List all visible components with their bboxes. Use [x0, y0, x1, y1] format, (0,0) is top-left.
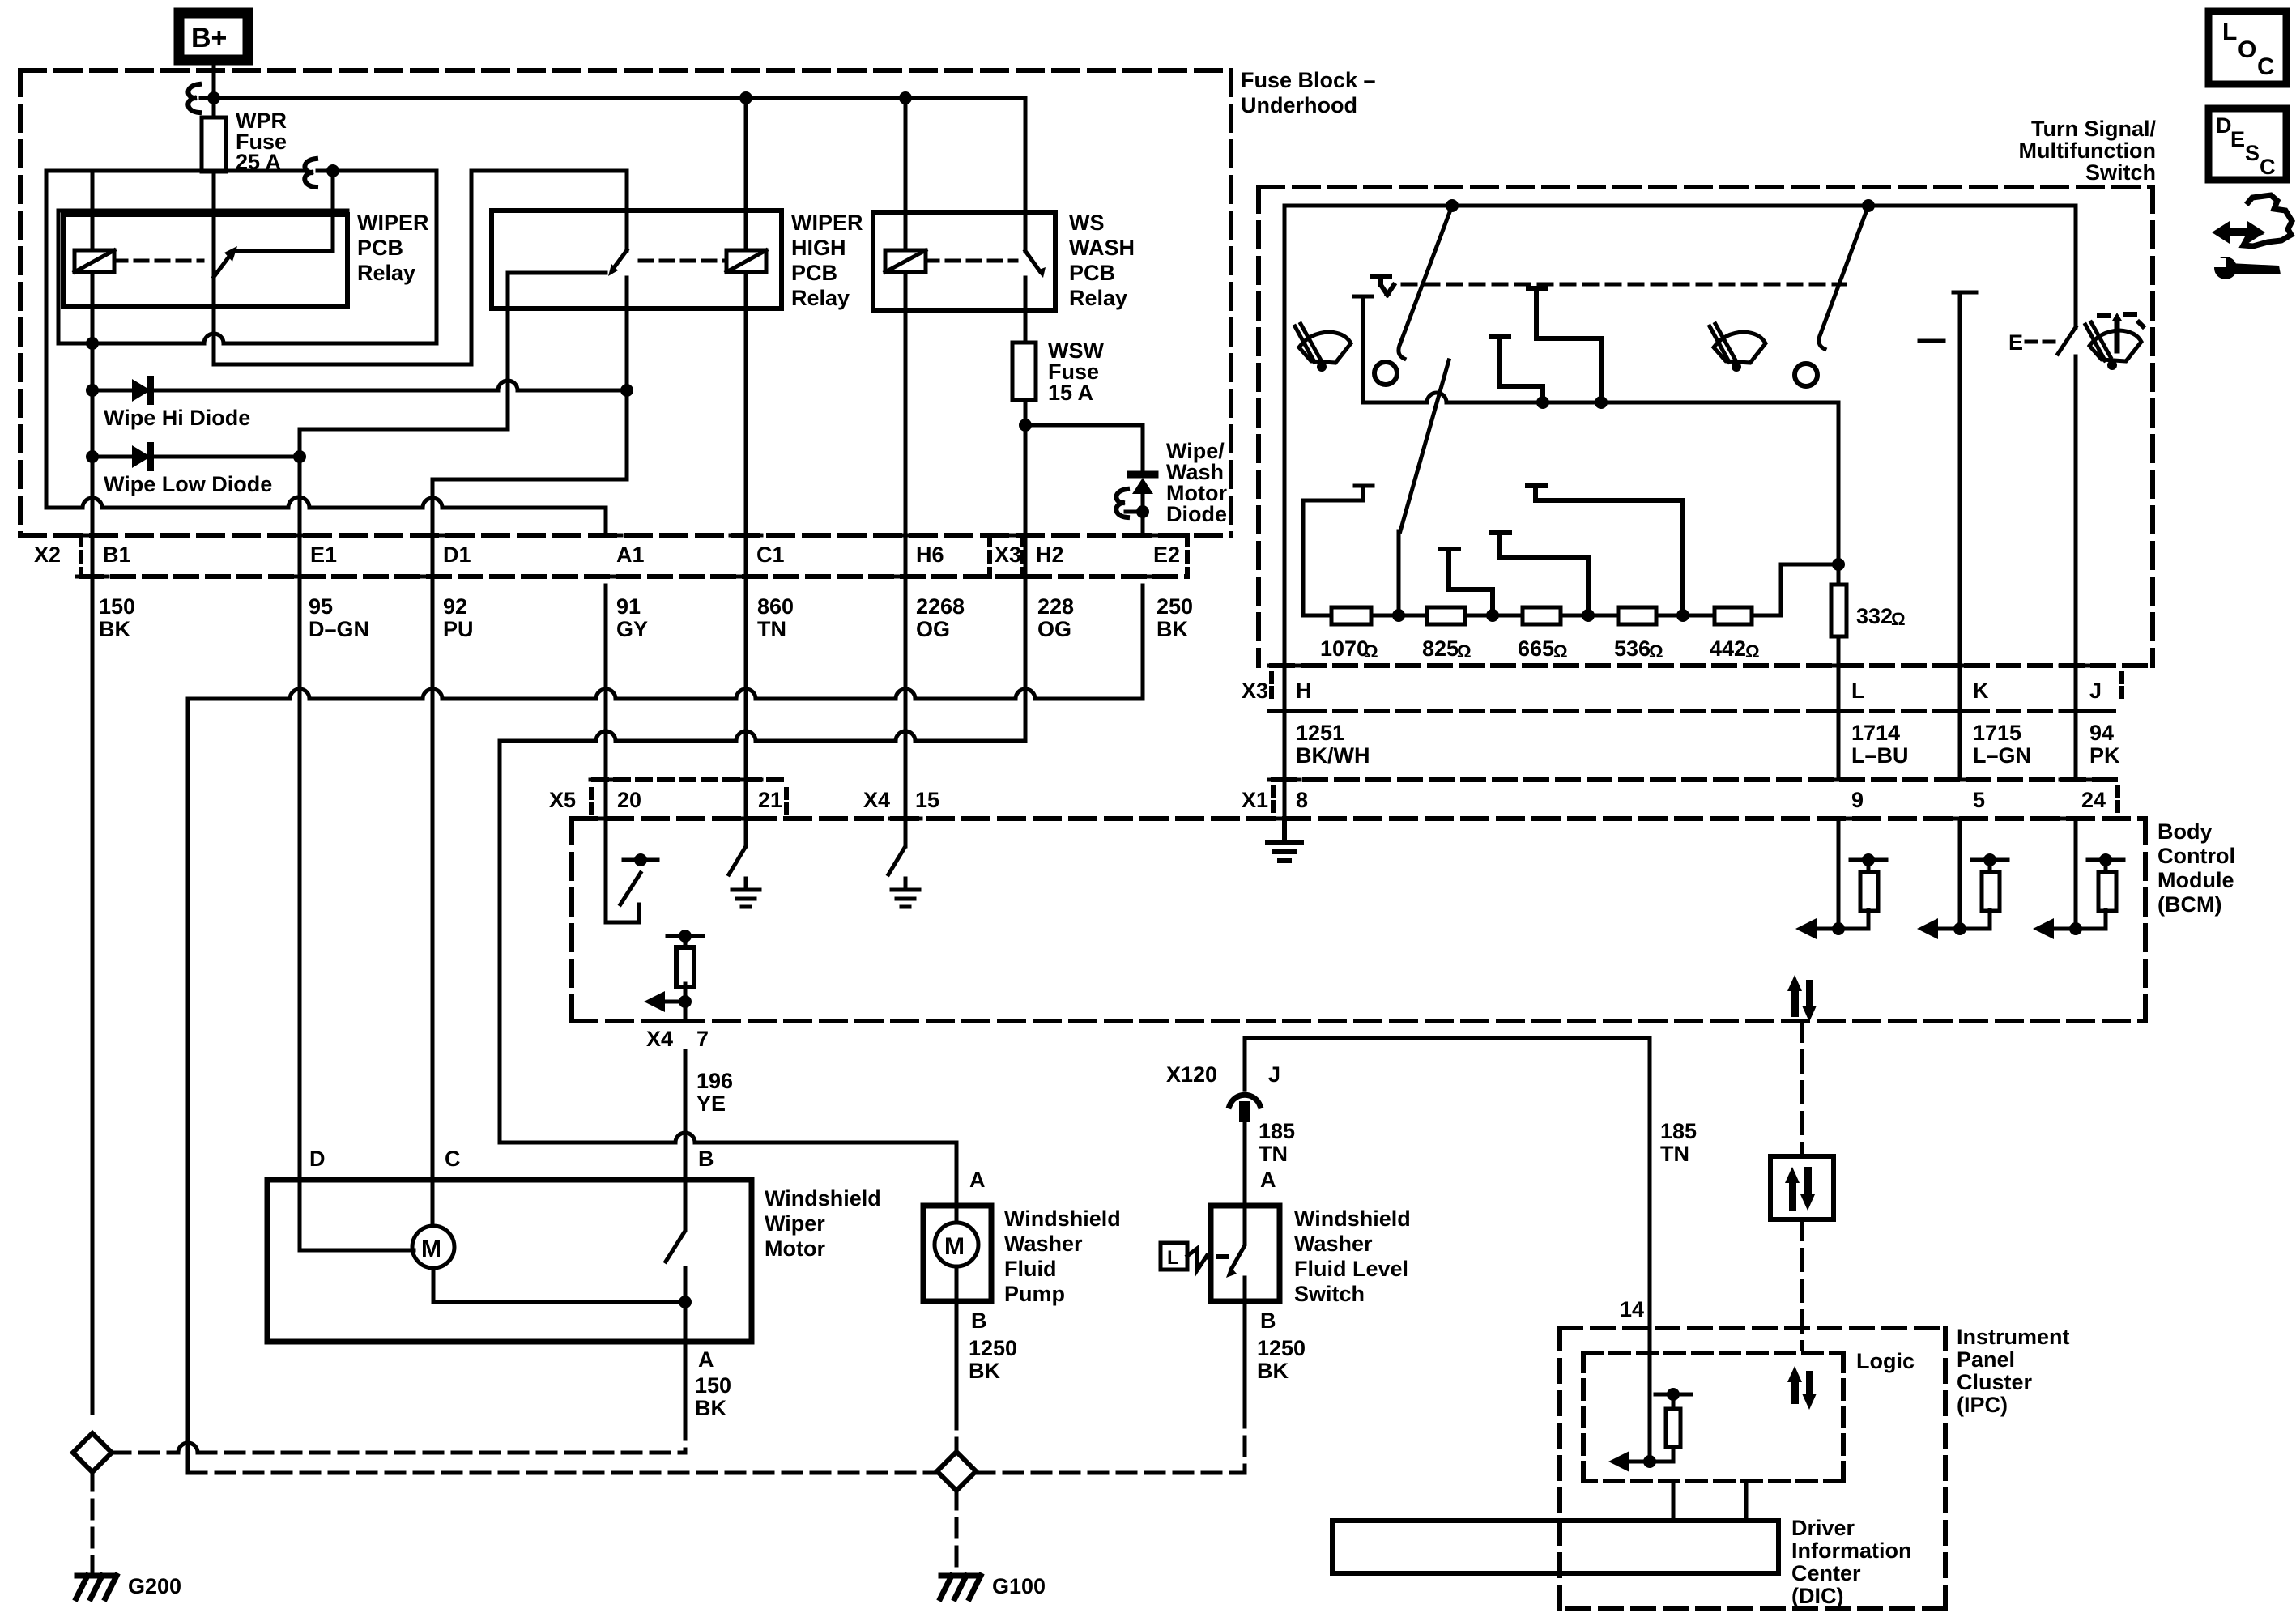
- logic label: [1856, 1349, 1915, 1373]
- BCM X4-7 pullup bar: [667, 934, 703, 938]
- node dot relay1 NO contact: [326, 164, 339, 177]
- B+ battery feed box: [179, 13, 248, 60]
- wire label 185 TN left: [1259, 1119, 1295, 1166]
- wire L down to connector: [1837, 636, 1841, 780]
- svg-text:D: D: [2216, 113, 2232, 138]
- resistor 536: [1618, 607, 1656, 624]
- svg-text:1715: 1715: [1973, 721, 2021, 745]
- connector pin labels X2 row: [34, 543, 1180, 567]
- svg-text:91: 91: [616, 594, 641, 619]
- svg-text:Fuse Block –: Fuse Block –: [1241, 68, 1376, 92]
- IPC logic dashed box: [1583, 1353, 1843, 1481]
- connector X2 X3 row bottom dashed: [81, 574, 1187, 579]
- svg-text:L: L: [1167, 1247, 1179, 1269]
- svg-text:Logic: Logic: [1856, 1349, 1915, 1373]
- svg-text:Windshield: Windshield: [765, 1186, 881, 1211]
- connector X5 separator right: [784, 789, 789, 812]
- svg-text:1250: 1250: [1257, 1336, 1306, 1360]
- svg-text:L–BU: L–BU: [1851, 743, 1909, 768]
- svg-text:L–GN: L–GN: [1973, 743, 2031, 768]
- wire K 1715 into BCM: [1958, 819, 1962, 929]
- IPC pin14 wire inside: [1648, 1328, 1652, 1462]
- svg-text:Control: Control: [2158, 844, 2235, 868]
- wire label 2268 OG: [916, 594, 965, 641]
- svg-text:OG: OG: [1037, 617, 1071, 641]
- svg-text:O: O: [2238, 36, 2256, 63]
- node dot rail 1977: [1595, 396, 1608, 409]
- wire washer feed down and east to pump: [500, 741, 956, 1206]
- svg-text:C: C: [445, 1147, 461, 1171]
- node dot at 1118,121: [899, 91, 912, 104]
- svg-text:L: L: [2222, 19, 2237, 45]
- svg-text:B: B: [698, 1147, 714, 1171]
- BCM pin5 resistor: [1988, 860, 1992, 872]
- svg-text:X1: X1: [1242, 788, 1268, 812]
- wire A1 gather line y627: [46, 508, 606, 535]
- wire label 150 BK: [99, 594, 135, 641]
- mf contact B1 bracket: [1441, 549, 1493, 607]
- node dot blade1 top: [1446, 199, 1459, 212]
- BCM pin9 arrow west: [1814, 927, 1838, 931]
- svg-text:E2: E2: [1153, 543, 1180, 567]
- wire dashed diamond to G100 ground: [955, 1491, 959, 1571]
- wire label 91 GY: [616, 594, 648, 641]
- wire label 1251 BK/WH: [1296, 721, 1370, 768]
- svg-text:(DIC): (DIC): [1791, 1584, 1843, 1608]
- connector X5 separator left: [589, 789, 594, 812]
- svg-text:24: 24: [2081, 788, 2106, 812]
- wire label 860 TN: [757, 594, 794, 641]
- hop over E1: [288, 497, 309, 508]
- wire fluid switch B dashed down: [1243, 1409, 1247, 1473]
- svg-text:8: 8: [1296, 788, 1308, 812]
- BCM ground pin8: [1267, 819, 1301, 861]
- wire fuse to relay1 common: [212, 172, 216, 277]
- connector X3 right separator: [2119, 674, 2124, 703]
- wire WSW fuse to H2: [1024, 400, 1028, 585]
- windshield washer fluid pump box: [923, 1206, 991, 1301]
- relay U2 coil dashed actuator: [640, 259, 726, 263]
- svg-text:B: B: [971, 1308, 987, 1333]
- mf blade right: [1821, 206, 1868, 334]
- svg-text:150: 150: [695, 1373, 731, 1398]
- hop rail over blade2: [1427, 393, 1446, 402]
- wire fuse output line y211: [46, 169, 305, 173]
- svg-text:Cluster: Cluster: [1957, 1370, 2033, 1394]
- svg-text:665: 665: [1518, 636, 1554, 661]
- mf dashed actuator line: [1403, 283, 1845, 287]
- node dot loop B1 junction: [86, 337, 99, 350]
- svg-text:1250: 1250: [969, 1336, 1017, 1360]
- IPC pin14 resistor: [1672, 1394, 1676, 1409]
- svg-text:Ω: Ω: [1457, 641, 1472, 662]
- connector X3 separator: [1269, 674, 1274, 703]
- wire motor A down: [684, 1342, 688, 1421]
- washer icon: [2085, 313, 2143, 370]
- mf contact B2 bracket: [1492, 533, 1588, 607]
- BCM pin24 resistor: [2104, 860, 2108, 872]
- svg-text:WS: WS: [1069, 211, 1105, 235]
- svg-text:Underhood: Underhood: [1241, 93, 1357, 117]
- wire 150 BK B1 down: [91, 585, 95, 1413]
- connector pin crossing ticks: [77, 535, 2091, 819]
- motor pin A: [698, 1347, 714, 1372]
- mf park contact circle right: [1795, 364, 1817, 386]
- node dot wipelow junction B1: [86, 450, 99, 463]
- wire wipelow up to relay2 common: [300, 273, 508, 457]
- connector separator after X3 label: [1020, 535, 1024, 577]
- node dot at 264,121: [207, 91, 220, 104]
- connector separator after E2: [1185, 535, 1190, 577]
- resistor 825: [1427, 607, 1465, 624]
- svg-text:L: L: [1851, 679, 1865, 703]
- pump pin B label: [971, 1308, 987, 1333]
- node dot motor common: [679, 1296, 692, 1308]
- instrument panel cluster dashed box: [1560, 1328, 1945, 1608]
- svg-text:BK: BK: [99, 617, 130, 641]
- svg-text:1714: 1714: [1851, 721, 1900, 745]
- svg-text:S: S: [2245, 141, 2260, 165]
- svg-text:B: B: [1260, 1308, 1276, 1333]
- svg-text:H2: H2: [1036, 543, 1064, 567]
- svg-text:860: 860: [757, 594, 794, 619]
- BCM X4-7 node dot: [679, 995, 692, 1008]
- svg-text:BK/WH: BK/WH: [1296, 743, 1370, 768]
- svg-text:WIPER: WIPER: [357, 211, 429, 235]
- BCM X4-7 arrow west: [661, 1000, 685, 1004]
- wire 196 YE down to motor B: [684, 1051, 688, 1180]
- wire label 228 OG: [1037, 594, 1074, 641]
- svg-text:Body: Body: [2158, 819, 2213, 844]
- mf park contact circle left: [1374, 362, 1397, 385]
- BCM serial data arrows: [1787, 975, 1817, 1022]
- svg-text:Fluid Level: Fluid Level: [1294, 1257, 1408, 1281]
- hop y863 over E1: [290, 689, 309, 699]
- wire bus2 down to relay2 blade: [625, 171, 629, 250]
- svg-text:X3: X3: [995, 543, 1021, 567]
- svg-text:A: A: [969, 1168, 986, 1192]
- fuse WPR 25A: [202, 117, 226, 172]
- BCM pin5 node dot: [1953, 922, 1966, 935]
- mf L wire rail corner down: [1837, 402, 1841, 585]
- wire label 94 PK: [2089, 721, 2120, 768]
- svg-text:Windshield: Windshield: [1294, 1206, 1411, 1231]
- wire relay2 NO down through box: [432, 278, 627, 479]
- hop dashed over 250BK riser: [178, 1443, 198, 1453]
- BCM switch pin20 blade: [620, 873, 641, 904]
- wire bus corner down to relay3: [1024, 98, 1028, 251]
- connector separator X3 left: [987, 535, 992, 577]
- BCM switch pin20 return hook: [606, 819, 639, 922]
- svg-text:WASH: WASH: [1069, 236, 1135, 260]
- svg-text:196: 196: [696, 1069, 733, 1093]
- diode Wipe Low: [92, 455, 300, 459]
- wire 95 D-GN E1 down to motor D: [298, 457, 302, 1180]
- ground G200: [76, 1576, 117, 1598]
- wire 250 BK E2 down and west ground line: [188, 585, 1143, 1473]
- BCM pin24 arrow west: [2051, 927, 2076, 931]
- svg-text:Ω: Ω: [1649, 641, 1663, 662]
- fluid switch zigzag link: [1187, 1249, 1211, 1270]
- node dot diode bottom: [1136, 505, 1149, 518]
- resistor 1070: [1331, 607, 1371, 624]
- fluid switch pin A label: [1260, 1168, 1276, 1192]
- IPC label: [1957, 1325, 2070, 1417]
- wire relay3 output to WSW fuse: [1024, 278, 1028, 343]
- svg-text:H6: H6: [916, 543, 944, 567]
- svg-text:BK: BK: [695, 1396, 726, 1420]
- svg-text:TN: TN: [757, 617, 786, 641]
- resistor 332: [1831, 585, 1847, 636]
- wire label 1250 BK fluid switch: [1257, 1336, 1306, 1383]
- svg-text:Turn Signal/: Turn Signal/: [2031, 117, 2156, 141]
- mf rail left riser: [1303, 486, 1373, 615]
- hop y863 over D1: [423, 689, 442, 699]
- relay U1 coil: [75, 250, 114, 272]
- svg-text:C: C: [2260, 155, 2276, 179]
- svg-text:X5: X5: [549, 788, 576, 812]
- legend wrench icon: [2213, 257, 2281, 279]
- wire motor A dashed to splice: [684, 1421, 688, 1453]
- svg-text:M: M: [944, 1233, 965, 1260]
- relay U1 switch blade: [214, 254, 231, 277]
- IPC pin 14 label: [1620, 1297, 1644, 1321]
- relay U1 WIPER PCB Relay box: [63, 215, 347, 306]
- hop y1411 over 196YE: [675, 1133, 695, 1143]
- wire pump A into M: [955, 1206, 959, 1223]
- wire dashed diamond to G200 ground: [91, 1472, 95, 1571]
- diode wipe wash motor: [1131, 471, 1155, 479]
- mf contact A2 bracket: [1491, 337, 1543, 402]
- svg-text:Washer: Washer: [1294, 1232, 1373, 1256]
- hop y915 over C1: [736, 731, 756, 741]
- mf K wire with contact ticks: [1919, 292, 1976, 780]
- svg-text:Relay: Relay: [357, 261, 415, 285]
- wire fluid switch B down: [1243, 1301, 1247, 1409]
- svg-text:M: M: [421, 1236, 441, 1262]
- hop over B1: [83, 498, 102, 508]
- node dot wipelow E1 junction: [293, 450, 306, 463]
- driver information center box: [1332, 1521, 1778, 1573]
- svg-text:B+: B+: [191, 23, 227, 53]
- pump pin A label: [969, 1168, 986, 1192]
- svg-text:C1: C1: [756, 543, 785, 567]
- fuse WSW 15A: [1012, 343, 1036, 400]
- svg-text:Center: Center: [1791, 1561, 1861, 1585]
- wire relay1 common down to riser: [214, 171, 627, 364]
- fluid switch pin B label: [1260, 1308, 1276, 1333]
- wire net bus2 crimp to corner: [317, 169, 437, 173]
- hop y915 over A1: [596, 731, 616, 741]
- hop y915 over H6: [896, 731, 915, 741]
- mf contact A1 bracket: [1528, 288, 1601, 402]
- connector X3 switch row dashed bottom: [1272, 709, 2122, 713]
- hop y863 over C1: [736, 689, 756, 699]
- BCM ground pin21: [732, 879, 760, 907]
- diode Wipe Hi: [92, 389, 624, 393]
- relay U3 WS WASH PCB Relay box: [873, 212, 1055, 310]
- svg-text:Fluid: Fluid: [1004, 1257, 1056, 1281]
- svg-text:G200: G200: [128, 1574, 181, 1598]
- legend arrow icon: [2212, 221, 2265, 244]
- svg-text:7: 7: [696, 1027, 709, 1051]
- wire pump B dashed to G100 splice: [955, 1411, 959, 1452]
- windshield washer fluid level switch box: [1211, 1206, 1280, 1301]
- mf NC contact mark left: [1372, 276, 1394, 295]
- node dot wipehi junction B1: [86, 384, 99, 397]
- mf resistor rail y760: [1303, 564, 1838, 615]
- BCM switch pin20 contact bar: [624, 858, 658, 862]
- svg-text:Motor: Motor: [765, 1236, 825, 1261]
- relay U3 switch blade: [1025, 251, 1040, 271]
- windshield wiper motor box: [267, 1180, 752, 1342]
- svg-text:Relay: Relay: [1069, 286, 1127, 310]
- motor park switch blade: [666, 1180, 685, 1262]
- node dot rail 1905: [1536, 396, 1549, 409]
- svg-text:228: 228: [1037, 594, 1074, 619]
- wire 185 TN fluid level to IPC 14: [1245, 1038, 1650, 1328]
- svg-text:YE: YE: [696, 1091, 726, 1116]
- svg-text:J: J: [1268, 1062, 1280, 1087]
- motor park switch lower stub: [684, 1268, 688, 1342]
- LOC legend box: [2209, 11, 2286, 84]
- relay U2 pivot line: [508, 271, 606, 275]
- splice crimp S2 on line 211: [305, 159, 316, 187]
- svg-text:X4: X4: [646, 1027, 673, 1051]
- mf switch inner solid box: [1284, 206, 2076, 666]
- wire pump M to B: [955, 1266, 959, 1301]
- DIC legs: [1673, 1481, 1746, 1521]
- wire label 95 D-GN: [309, 594, 369, 641]
- svg-text:D1: D1: [443, 543, 471, 567]
- svg-text:BK: BK: [1157, 617, 1188, 641]
- IPC pin14 node dot: [1643, 1455, 1656, 1468]
- svg-text:1070: 1070: [1320, 636, 1369, 661]
- BCM switch pin21 blade: [729, 819, 746, 874]
- BCM pin9 resistor: [1867, 860, 1871, 872]
- wire dashed G200 splice east to motor A: [112, 1451, 685, 1455]
- connector X1 separator: [1271, 788, 1276, 811]
- serial data dashed link down: [1800, 1021, 1804, 1156]
- connector X1 right separator: [2115, 788, 2120, 811]
- svg-text:21: 21: [758, 788, 782, 812]
- wire label 1714 L-BU: [1851, 721, 1909, 768]
- motor M armature: [412, 1226, 454, 1268]
- svg-text:Wiper: Wiper: [765, 1211, 825, 1236]
- svg-text:X4: X4: [863, 788, 890, 812]
- svg-text:Ω: Ω: [1364, 641, 1378, 662]
- svg-text:150: 150: [99, 594, 135, 619]
- wire J 94 into BCM: [2074, 819, 2078, 929]
- svg-text:E: E: [2230, 127, 2245, 151]
- svg-text:OG: OG: [916, 617, 950, 641]
- svg-text:D: D: [309, 1147, 326, 1171]
- wire 2268 OG H6 down to X4 15: [904, 585, 908, 846]
- svg-text:442: 442: [1710, 636, 1746, 661]
- hop y863 over H6: [896, 689, 915, 699]
- svg-text:Windshield: Windshield: [1004, 1206, 1121, 1231]
- svg-text:X120: X120: [1166, 1062, 1217, 1087]
- svg-text:H: H: [1296, 679, 1312, 703]
- wire loop right edge: [435, 171, 439, 343]
- svg-text:Diode: Diode: [1166, 502, 1227, 526]
- svg-text:15 A: 15 A: [1048, 381, 1093, 405]
- node dots resistor rail: [1392, 609, 1405, 622]
- svg-text:Ω: Ω: [1891, 609, 1906, 629]
- splice diamond G200 net: [73, 1433, 112, 1472]
- svg-text:185: 185: [1259, 1119, 1295, 1143]
- svg-text:(IPC): (IPC): [1957, 1393, 2008, 1417]
- svg-text:Information: Information: [1791, 1538, 1912, 1563]
- svg-text:BK: BK: [969, 1359, 1000, 1383]
- node dot wipehi at relay2 NO: [620, 384, 633, 397]
- wire loop top edge: [58, 209, 347, 213]
- svg-text:A1: A1: [616, 543, 645, 567]
- fluid switch L sensor box: [1161, 1243, 1187, 1270]
- svg-text:E: E: [2008, 330, 2023, 355]
- wire C1 from bus through coil: [744, 98, 748, 585]
- svg-text:PCB: PCB: [1069, 261, 1115, 285]
- ground G100: [940, 1576, 981, 1598]
- mf E switch blade: [2058, 327, 2076, 354]
- svg-text:20: 20: [617, 788, 641, 812]
- BCM X4-7 resistor: [684, 936, 688, 946]
- svg-text:Washer: Washer: [1004, 1232, 1083, 1256]
- turn signal multifunction switch dashed box: [1259, 187, 2153, 666]
- wire label 250 BK: [1157, 594, 1193, 641]
- BCM pin24 pullup bar: [2088, 858, 2123, 862]
- wiper icon left: [1295, 324, 1351, 372]
- wire 91 GY A1 down to X5 20: [604, 585, 608, 819]
- svg-text:250: 250: [1157, 594, 1193, 619]
- wire B1 through coil down: [91, 272, 95, 585]
- relay U1 coil dashed actuator: [114, 259, 202, 263]
- wire D1 down from 592: [431, 479, 435, 585]
- mf blade2 selector: [1399, 360, 1449, 615]
- hop y863 over A1: [596, 689, 616, 699]
- fluid switch dash mark: [1218, 1254, 1227, 1259]
- wire L 1714 into BCM: [1837, 819, 1841, 929]
- wire motor C to M top: [431, 1180, 435, 1226]
- svg-text:J: J: [2089, 679, 2102, 703]
- svg-text:A: A: [698, 1347, 714, 1372]
- wire label 196 YE: [696, 1069, 733, 1116]
- svg-text:HIGH: HIGH: [791, 236, 846, 260]
- svg-text:PK: PK: [2089, 743, 2120, 768]
- svg-text:Wipe Low Diode: Wipe Low Diode: [104, 472, 272, 496]
- svg-text:2268: 2268: [916, 594, 965, 619]
- mf contact leg left: [1354, 296, 1372, 402]
- multifunction switch label: [2019, 117, 2157, 185]
- wire H 1251 down: [1283, 666, 1287, 819]
- relay U3 coil: [885, 250, 926, 272]
- svg-text:14: 14: [1620, 1297, 1644, 1321]
- svg-text:G100: G100: [992, 1574, 1046, 1598]
- svg-text:5: 5: [1973, 788, 1985, 812]
- svg-text:Ω: Ω: [1745, 641, 1760, 662]
- wire label 1715 L-GN: [1973, 721, 2031, 768]
- svg-text:E1: E1: [310, 543, 337, 567]
- svg-text:95: 95: [309, 594, 333, 619]
- BCM pin9 pullup bar: [1851, 858, 1886, 862]
- relay U1 contact to NO: [236, 171, 333, 251]
- wire H6 through relay3 coil: [904, 98, 908, 585]
- svg-text:BK: BK: [1257, 1359, 1289, 1383]
- wire label 1250 BK pump: [969, 1336, 1017, 1383]
- wiper icon right: [1710, 324, 1766, 372]
- wire dashed ground line y1819: [188, 1471, 1245, 1475]
- svg-text:WIPER: WIPER: [791, 211, 863, 235]
